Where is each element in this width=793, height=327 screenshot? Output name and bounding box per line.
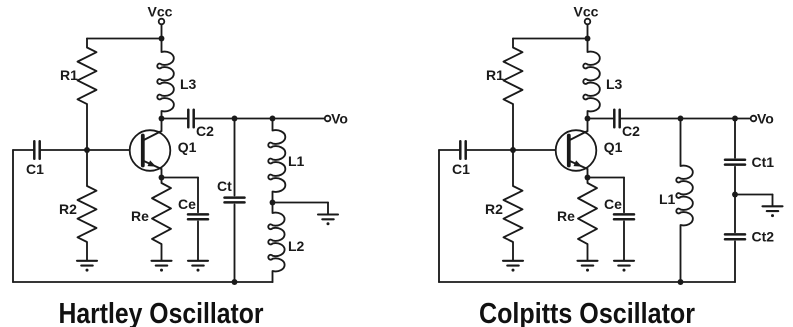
node: Ct top junction (232, 116, 238, 122)
svg-text:Ce: Ce (178, 196, 196, 212)
wire (161, 39, 163, 53)
capacitor Ce (614, 214, 634, 219)
svg-text:Re: Re (557, 208, 575, 224)
node: tank top junction (678, 116, 684, 122)
wire (512, 104, 514, 150)
node: Vcc junction (159, 36, 165, 42)
capacitor Ct1 (725, 160, 745, 165)
resistor Re (152, 183, 171, 244)
svg-text:R1: R1 (60, 67, 78, 83)
svg-text:L1: L1 (659, 191, 676, 207)
svg-text:Re: Re (131, 208, 149, 224)
wire (513, 38, 588, 40)
node: emitter junction (159, 175, 165, 181)
wire (272, 271, 274, 282)
ground (77, 261, 97, 272)
resistor R1 (78, 48, 97, 105)
wire (587, 111, 589, 119)
wire (735, 194, 773, 196)
ground (188, 261, 208, 272)
ground (503, 261, 523, 272)
wire (13, 281, 273, 283)
svg-text:Q1: Q1 (178, 139, 197, 155)
inductor L3 (583, 52, 600, 112)
wire (512, 150, 514, 186)
svg-text:Ce: Ce (604, 196, 622, 212)
wire (623, 221, 625, 260)
node: Vcc junction (585, 36, 591, 42)
wire (513, 149, 556, 151)
wire (588, 118, 613, 120)
wire (439, 149, 459, 151)
svg-text:L2: L2 (288, 238, 305, 254)
svg-text:L3: L3 (180, 76, 197, 92)
node: Ct bottom junction (232, 279, 238, 285)
node: Ct1 top junction (732, 116, 738, 122)
inductor L1 (268, 130, 285, 192)
svg-text:R2: R2 (485, 201, 503, 217)
wire (87, 38, 162, 40)
node: base junction (510, 147, 516, 153)
wire (327, 203, 329, 215)
capacitor Ct2 (725, 234, 745, 239)
resistor R1 (504, 48, 523, 105)
svg-text:R2: R2 (59, 201, 77, 217)
svg-text:C2: C2 (196, 123, 214, 139)
ground (614, 261, 634, 272)
wire (86, 150, 88, 186)
wire (161, 111, 163, 119)
svg-text:Ct: Ct (217, 178, 232, 194)
wire (734, 119, 736, 158)
wire (512, 242, 514, 260)
wire (162, 177, 199, 179)
wire (587, 39, 589, 53)
wire (234, 119, 236, 196)
wire (87, 149, 130, 151)
wire (86, 104, 88, 150)
node: Ct1-Ct2 tap (732, 192, 738, 198)
node: base junction (84, 147, 90, 153)
wire (621, 118, 750, 120)
wire (272, 203, 274, 214)
wire (12, 150, 14, 282)
wire (623, 178, 625, 213)
svg-text:Ct2: Ct2 (752, 229, 775, 245)
wire (13, 149, 33, 151)
wire (734, 167, 736, 195)
capacitor C1 (460, 141, 465, 158)
inductor L1 (676, 166, 693, 226)
wire (272, 192, 274, 203)
wire (162, 118, 187, 120)
wire (680, 119, 682, 167)
resistor R2 (78, 186, 97, 242)
ground (763, 206, 783, 217)
svg-text:C1: C1 (26, 161, 44, 177)
wire (195, 118, 324, 120)
svg-text:L3: L3 (606, 76, 623, 92)
svg-text:Vo: Vo (757, 111, 774, 127)
svg-text:Hartley Oscillator: Hartley Oscillator (59, 298, 264, 327)
terminal Vo (325, 116, 331, 122)
terminal Vo (751, 116, 757, 122)
svg-text:Q1: Q1 (604, 139, 623, 155)
svg-text:L1: L1 (288, 153, 305, 169)
transistor Q1 (130, 119, 171, 177)
wire (161, 178, 163, 184)
node: collector junction (159, 116, 165, 122)
svg-text:Vcc: Vcc (148, 4, 173, 20)
capacitor C1 (34, 141, 39, 158)
node: collector junction (585, 116, 591, 122)
ground (318, 215, 338, 226)
wire (272, 119, 274, 131)
svg-text:Vcc: Vcc (574, 4, 599, 20)
svg-text:C1: C1 (452, 161, 470, 177)
wire (41, 149, 87, 151)
wire (86, 39, 88, 48)
capacitor Ct (225, 198, 245, 203)
wire (467, 149, 513, 151)
wire (680, 225, 682, 282)
wire (588, 177, 625, 179)
terminal Vcc (159, 19, 165, 25)
ground (578, 261, 598, 272)
node: L1-L2 tap (270, 200, 276, 206)
svg-text:R1: R1 (486, 67, 504, 83)
resistor Re (578, 183, 597, 244)
wire (734, 241, 736, 282)
node: emitter junction (585, 175, 591, 181)
terminal Vcc (585, 19, 591, 25)
wire (587, 25, 589, 39)
resistor R2 (504, 186, 523, 242)
wire (161, 25, 163, 39)
wire (772, 195, 774, 206)
capacitor C2 (614, 110, 619, 127)
wire (197, 221, 199, 260)
inductor L2 (268, 213, 284, 272)
wire (734, 195, 736, 233)
ground (152, 261, 172, 272)
inductor L3 (157, 52, 174, 112)
wire (587, 178, 589, 184)
transistor Q1 (556, 119, 597, 177)
wire (439, 281, 735, 283)
wire (512, 39, 514, 48)
capacitor C2 (188, 110, 193, 127)
wire (273, 202, 329, 204)
wire (197, 178, 199, 213)
svg-text:Vo: Vo (331, 111, 348, 127)
node: tank top junction (270, 116, 276, 122)
svg-text:Colpitts Oscillator: Colpitts Oscillator (479, 298, 695, 327)
capacitor Ce (188, 214, 208, 219)
node: L1 bottom junction (678, 279, 684, 285)
wire (234, 205, 236, 282)
svg-text:Ct1: Ct1 (752, 154, 775, 170)
wire (438, 150, 440, 282)
svg-text:C2: C2 (622, 123, 640, 139)
wire (86, 242, 88, 260)
wire (161, 244, 163, 260)
wire (587, 244, 589, 260)
